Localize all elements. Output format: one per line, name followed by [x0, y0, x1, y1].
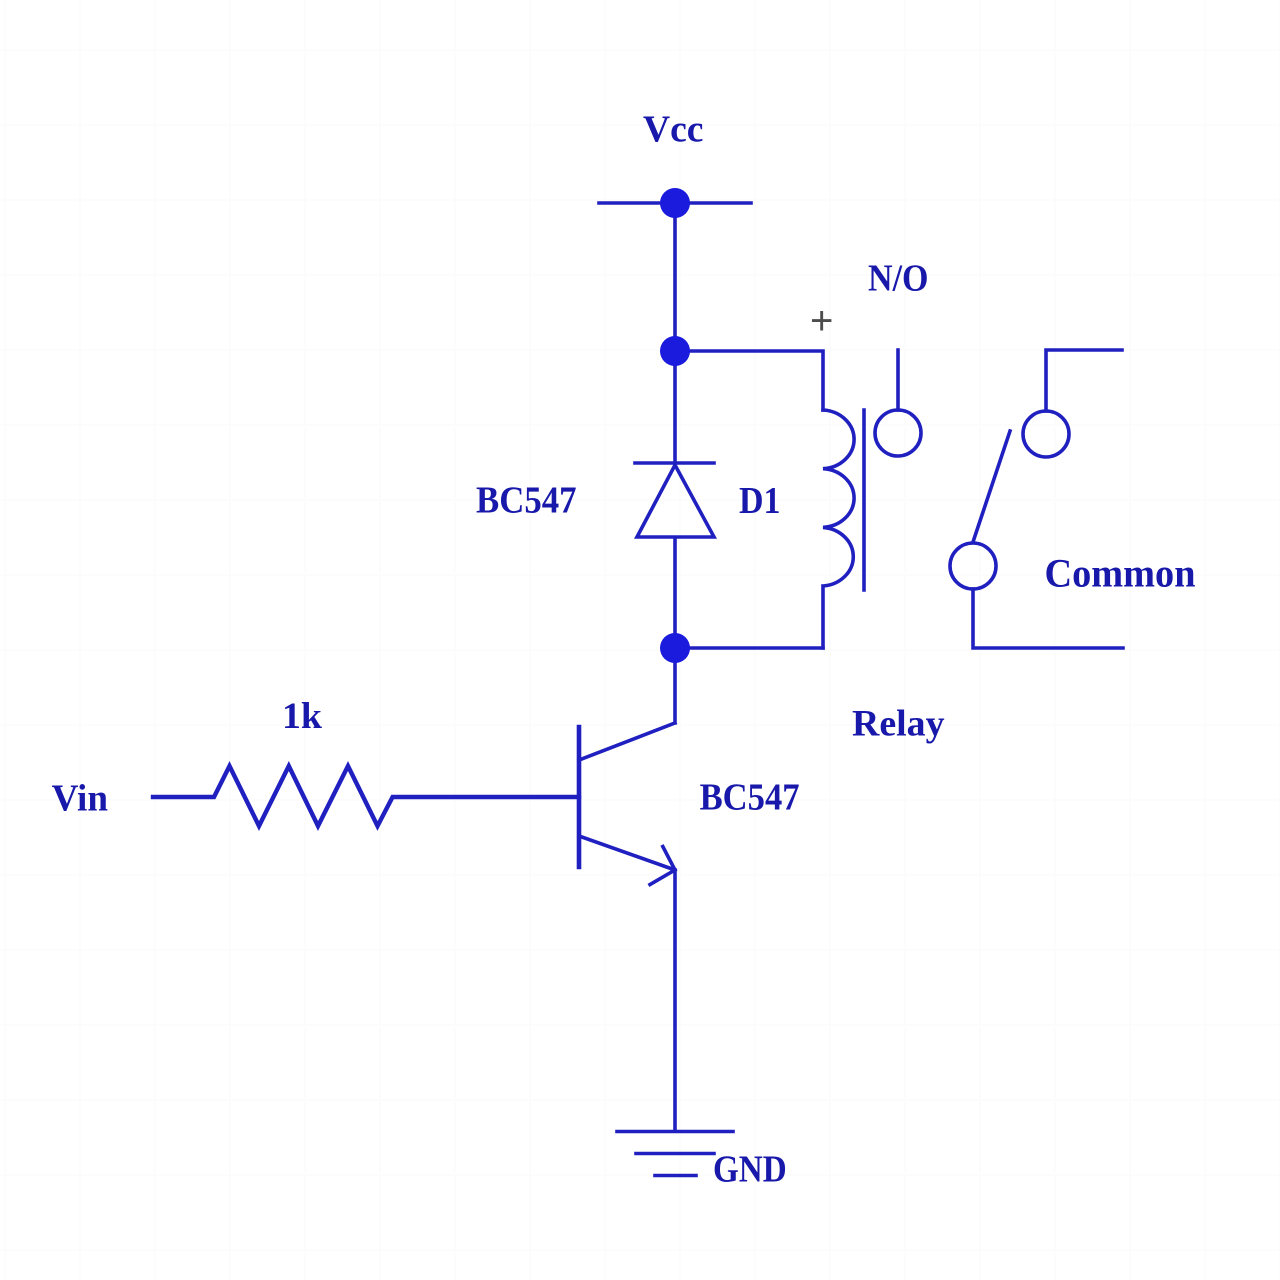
svg-text:+: + — [810, 299, 833, 343]
node B (coil top junction) — [660, 336, 690, 366]
transistor Q1 collector wire — [579, 648, 675, 760]
right contact circle — [1023, 411, 1069, 457]
switch arm — [973, 431, 1010, 542]
N/O right lead — [1046, 350, 1122, 411]
svg-text:D1: D1 — [739, 480, 781, 522]
svg-text:BC547: BC547 — [700, 777, 800, 819]
transistor Q1 base bar — [577, 727, 582, 867]
svg-text:Vcc: Vcc — [643, 109, 704, 151]
wire node B to relay coil top — [675, 351, 823, 410]
svg-text:1k: 1k — [282, 696, 322, 737]
svg-text:Relay: Relay — [852, 703, 945, 744]
Vcc rail — [599, 201, 751, 205]
relay coil — [823, 410, 854, 648]
emitter arrowhead — [650, 847, 675, 885]
node C (coil bottom junction) — [660, 633, 690, 663]
common contact circle — [950, 543, 996, 589]
relay core bar — [862, 410, 866, 590]
svg-text:Vin: Vin — [52, 778, 108, 820]
N/O contact stub — [896, 350, 900, 410]
svg-text:GND: GND — [713, 1149, 787, 1191]
node A (Vcc junction) — [660, 188, 690, 218]
N/O contact circle — [875, 410, 921, 456]
svg-text:BC547: BC547 — [476, 480, 577, 522]
svg-text:N/O: N/O — [868, 258, 929, 300]
ground symbol — [617, 1132, 733, 1176]
svg-text:Common: Common — [1045, 551, 1196, 596]
resistor 1k — [153, 766, 579, 826]
wire Vcc node to coil-top node — [673, 203, 677, 351]
common lead — [973, 589, 1123, 648]
transistor Q1 emitter — [579, 836, 675, 1131]
diode D1 — [635, 351, 714, 649]
wire node C to coil bottom — [675, 646, 823, 650]
